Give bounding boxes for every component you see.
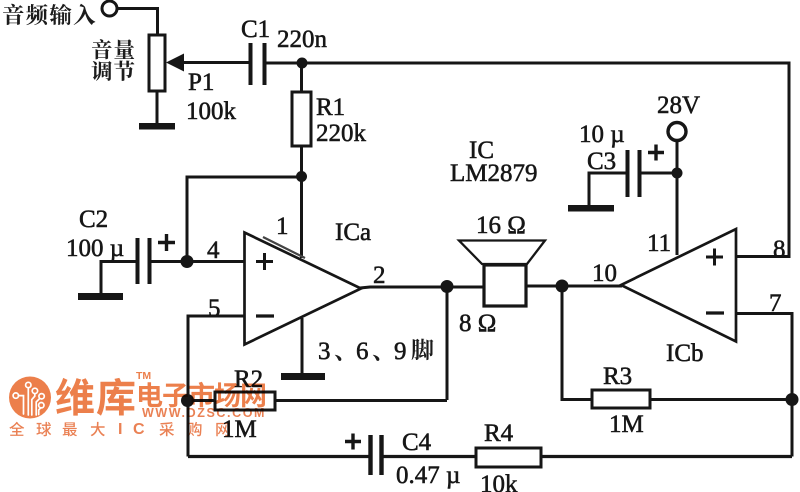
wire R2 to node D vertical — [275, 399, 447, 402]
label volume adjust line 2 (Chinese) — [91, 61, 111, 81]
resistor R1 — [292, 92, 311, 146]
node D junction — [441, 280, 454, 293]
svg-text:ICb: ICb — [666, 340, 704, 367]
ICb plus input mark — [706, 249, 723, 266]
wire node B left down to node C — [187, 177, 302, 261]
svg-text:10: 10 — [592, 260, 617, 287]
svg-text:C3: C3 — [587, 148, 616, 175]
svg-text:1M: 1M — [222, 416, 257, 443]
C3 plus polarity mark — [648, 145, 664, 161]
svg-text:10 µ: 10 µ — [579, 121, 625, 148]
svg-text:WWW.DZSC.COM: WWW.DZSC.COM — [142, 406, 266, 420]
C4 plus polarity mark — [345, 434, 361, 450]
svg-text:C2: C2 — [79, 206, 108, 233]
ground below ICa — [281, 373, 325, 380]
capacitor C1 — [251, 43, 265, 85]
wire pin 5 feedback — [188, 316, 245, 457]
svg-text:28V: 28V — [657, 92, 700, 119]
watermark logo circuit tree — [13, 382, 44, 415]
svg-text:C4: C4 — [402, 429, 432, 456]
watermark group — [9, 370, 266, 438]
ground below C3 — [568, 205, 614, 212]
svg-text:220k: 220k — [316, 120, 367, 147]
watermark text electronics market (Chinese) — [139, 382, 162, 407]
node G junction — [786, 393, 799, 406]
wire ICa output pin 2 to speaker — [360, 287, 484, 288]
node H junction — [672, 168, 683, 179]
svg-text:10k: 10k — [480, 471, 518, 492]
op-amp U1 ICa — [245, 233, 362, 345]
op-amp U2 ICb — [621, 229, 736, 342]
wire node C to pin 4 — [187, 260, 245, 263]
svg-text:C1: C1 — [241, 16, 270, 43]
input terminal — [102, 1, 117, 16]
svg-text:1M: 1M — [609, 411, 644, 438]
svg-text:8 Ω: 8 Ω — [459, 310, 496, 337]
resistor R3 — [592, 390, 650, 408]
svg-text:3: 3 — [318, 338, 331, 365]
wire node D down to R2 — [446, 287, 449, 400]
ICa minus input mark — [256, 314, 274, 317]
bottom rail wire left segment — [188, 455, 369, 458]
svg-text:TM: TM — [136, 370, 151, 382]
node A junction — [297, 58, 308, 69]
svg-text:R4: R4 — [484, 420, 514, 447]
wire P1 wiper to C1 — [183, 61, 250, 64]
svg-text:16 Ω: 16 Ω — [476, 212, 526, 239]
wire ICa ground — [301, 318, 304, 374]
speaker body — [484, 265, 526, 306]
wire R3 to node G — [650, 398, 792, 401]
28V terminal — [668, 123, 686, 141]
svg-text:I: I — [118, 421, 122, 438]
scan artifact diagonal near pin 1 — [263, 237, 305, 258]
resistor R2 — [215, 392, 275, 410]
capacitor C3 — [628, 150, 640, 197]
wire C3 to node H — [641, 172, 677, 175]
wire input terminal to P1 top — [117, 9, 158, 36]
svg-text:100 µ: 100 µ — [66, 235, 124, 262]
resistor R4 — [476, 448, 541, 467]
svg-text:4: 4 — [207, 237, 220, 264]
node F junction — [556, 280, 569, 293]
bottom rail wire R4 to node G — [541, 455, 792, 458]
svg-text:1: 1 — [276, 213, 289, 240]
wire R1 bottom to node B — [300, 146, 303, 177]
bottom rail wire C4 to R4 — [383, 455, 476, 458]
ground below P1 — [139, 123, 175, 130]
label audio input (Chinese) — [3, 4, 24, 25]
wire pin 1 of ICa — [300, 177, 303, 258]
watermark text weiku (Chinese) — [56, 378, 94, 416]
svg-text:6: 6 — [356, 338, 369, 365]
node C junction — [181, 255, 194, 268]
speaker horn — [459, 241, 545, 265]
node B junction — [296, 171, 307, 182]
wire C2 left to ground — [101, 262, 136, 295]
wire node E to R2 — [187, 399, 215, 402]
svg-text:8: 8 — [773, 236, 786, 263]
svg-text:7: 7 — [769, 290, 782, 317]
svg-text:C: C — [133, 421, 145, 438]
svg-text:5: 5 — [208, 295, 221, 322]
ground below C2 — [78, 293, 123, 300]
wire speaker to ICb pin 10 — [526, 285, 622, 288]
wire 28V to pin 11 — [676, 141, 679, 256]
svg-text:LM2879: LM2879 — [450, 160, 538, 187]
watermark slogan (Chinese) — [9, 422, 24, 436]
ICa plus input mark — [256, 253, 273, 270]
potentiometer P1 body — [149, 35, 165, 91]
capacitor C2 — [138, 238, 150, 284]
svg-text:11: 11 — [647, 230, 671, 257]
wire P1 bottom to ground — [156, 91, 159, 124]
P1 wiper arrow — [166, 54, 184, 72]
svg-text:R3: R3 — [603, 363, 632, 390]
capacitor C4 — [371, 435, 382, 475]
wire C2 to node C — [151, 260, 187, 263]
svg-text:2: 2 — [373, 262, 386, 289]
label volume adjust line 1 (Chinese) — [92, 39, 112, 59]
C2 plus polarity mark — [158, 234, 175, 251]
watermark logo circle — [9, 377, 51, 419]
wire pin 7 to node G — [736, 314, 792, 457]
wire top rail node A to pin 8 — [302, 63, 789, 257]
node E junction — [181, 394, 194, 407]
svg-text:220n: 220n — [277, 26, 328, 53]
svg-text:R1: R1 — [316, 94, 345, 121]
svg-text:ICa: ICa — [335, 219, 371, 246]
svg-text:9: 9 — [394, 338, 407, 365]
svg-text:P1: P1 — [188, 69, 214, 96]
wire node F down to R3 — [562, 286, 592, 400]
ICb minus input mark — [706, 311, 724, 314]
wire C3 left to ground — [589, 173, 626, 206]
wire C1 to node A — [266, 62, 302, 65]
svg-text:0.47 µ: 0.47 µ — [396, 462, 460, 489]
svg-text:100k: 100k — [186, 98, 237, 125]
wire node A to R1 — [300, 63, 303, 93]
